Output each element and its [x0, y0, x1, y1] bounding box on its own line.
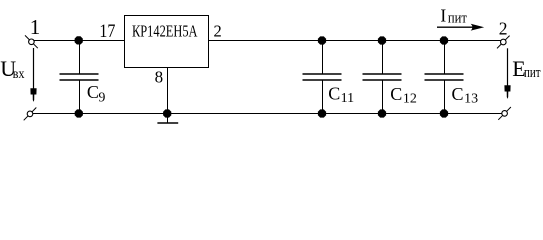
svg-text:C: C	[390, 84, 402, 104]
arrow I pit (points right)	[437, 24, 484, 31]
svg-text:13: 13	[464, 92, 478, 107]
svg-text:17: 17	[99, 22, 115, 42]
svg-text:12: 12	[403, 92, 417, 107]
node junction C12 top	[378, 36, 386, 44]
wire top rail right (U1 pin 2 to terminal 2)	[209, 40, 501, 42]
node junction C13 bottom	[440, 109, 448, 117]
svg-text:I: I	[440, 5, 446, 25]
node junction C9 bottom	[75, 109, 83, 117]
wire top rail left (terminal 1 to U1 pin 17)	[34, 40, 125, 42]
capacitor C9	[60, 41, 99, 114]
node junction C11 bottom	[318, 109, 326, 117]
svg-text:КР142ЕН5А: КР142ЕН5А	[132, 21, 198, 40]
capacitor C12	[363, 41, 402, 114]
wire bottom rail	[33, 113, 502, 115]
node junction C11 top	[318, 36, 326, 44]
svg-text:2: 2	[499, 19, 508, 39]
terminal 2' (output, bottom-right)	[498, 107, 511, 120]
svg-text:пит: пит	[448, 11, 468, 27]
svg-text:8: 8	[155, 67, 164, 86]
node junction C9 top	[75, 36, 83, 44]
node junction pin 8	[163, 109, 171, 117]
svg-text:C: C	[328, 83, 340, 103]
wire U1 pin 8 to ground rail	[167, 68, 169, 114]
ground	[157, 114, 178, 124]
arrow U vx (points down)	[30, 48, 36, 102]
svg-text:2: 2	[214, 22, 222, 41]
arrow E pit (points down)	[504, 48, 510, 99]
node junction C12 bottom	[378, 109, 386, 117]
terminal 1' (input, bottom-left)	[24, 108, 37, 121]
svg-text:1: 1	[30, 15, 41, 39]
terminal 2 (output, top-right)	[497, 36, 510, 49]
capacitor C13	[425, 41, 464, 114]
op-amp U1 regulator KP142EH5A box	[125, 16, 209, 68]
svg-text:C: C	[87, 82, 99, 102]
node junction C13 top	[440, 36, 448, 44]
svg-text:вх: вх	[13, 67, 25, 82]
svg-text:C: C	[452, 84, 464, 104]
terminal 1 (input, top-left)	[25, 35, 38, 48]
capacitor C11	[303, 41, 342, 114]
svg-text:9: 9	[98, 91, 105, 106]
svg-text:пит: пит	[524, 65, 541, 81]
svg-text:11: 11	[341, 91, 354, 106]
